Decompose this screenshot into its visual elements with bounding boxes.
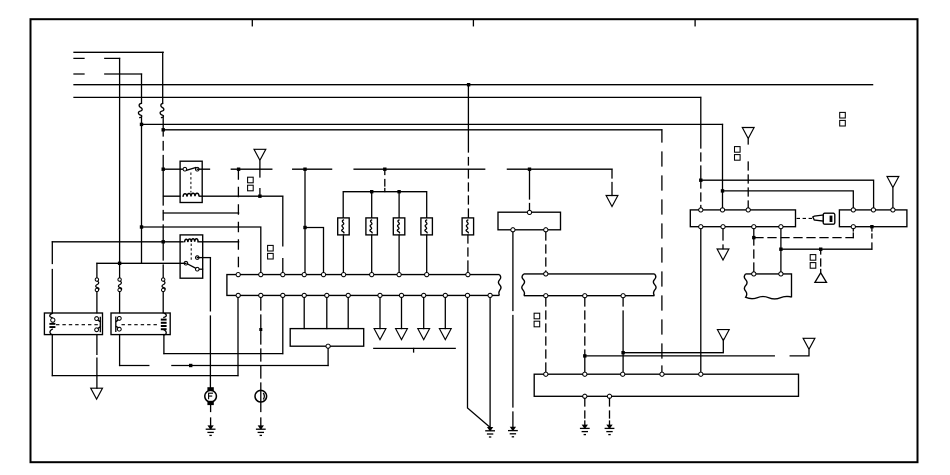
wire drop to fuse 2: [162, 52, 165, 103]
page triangle T7: [374, 329, 386, 340]
S1 coil core bars: [49, 323, 55, 325]
node coil bus junction: [162, 240, 165, 243]
CS1 top pin 4: [302, 273, 306, 277]
node x722.5 y190.9: [721, 189, 724, 192]
relay R2 contact upper right: [196, 256, 200, 260]
inline connector pair near x534: [534, 313, 540, 327]
wire x820.7 dashed down to option triangle: [820, 249, 822, 273]
wire below fuse 2: [162, 118, 164, 130]
option triangle up: [815, 273, 827, 283]
resistor R-E box: [462, 218, 474, 235]
CS2 bottom pin 3: [621, 294, 625, 298]
node y227 start: [140, 225, 143, 228]
solenoid box S2: [111, 313, 170, 335]
page triangle T9: [418, 329, 430, 340]
connector strip CS1: [227, 275, 500, 296]
wire GA1 pin1 long drop to strip CS3: [700, 229, 702, 374]
wire x305 drop to strip pin 4: [304, 169, 306, 272]
relay R2 switch arm: [188, 264, 196, 268]
junction box JB2 with torn edges: [744, 274, 791, 299]
wire S1 contact bottom toward ground: [96, 335, 98, 389]
motor F wire upper terminal: [207, 387, 213, 391]
relay R1 box: [180, 161, 202, 202]
CS1 top pin 10: [466, 273, 470, 277]
wire x163.2 breaker to solenoid box 2: [162, 292, 164, 313]
resistor R-C element: [397, 220, 399, 233]
node bus C start: [140, 123, 143, 126]
wire pin5 to junction box: [326, 298, 328, 329]
CB bottom pin 2: [544, 228, 548, 232]
wire resistor R-E to strip dashed: [467, 235, 469, 273]
breaker B2: [118, 278, 122, 292]
resistor R-D element: [425, 220, 427, 233]
chassis ground G5: [580, 425, 590, 435]
relay R1 switch arm: [187, 168, 196, 171]
wire y213 relay branch: [163, 212, 238, 214]
harness dashes to plug: [797, 217, 813, 219]
inline connector pair near x270: [268, 245, 274, 259]
fuse F2: [160, 103, 164, 117]
wire x119.6 breaker to solenoid box 2: [119, 292, 121, 313]
CS3 top pin 5: [699, 372, 703, 376]
inline connector pair x813: [810, 255, 816, 269]
wire x529.5 drop to control box: [529, 169, 531, 210]
GA1 bottom pin 2: [721, 225, 725, 229]
wire pin2 dashed down to motor C: [260, 298, 262, 391]
node y355.9: [583, 354, 586, 357]
wire pin6 to junction box: [347, 298, 349, 329]
wire ground run y375.6: [52, 375, 238, 377]
relay R1 coil: [183, 193, 199, 197]
GA1 bottom pin 3: [752, 225, 756, 229]
resistor bracket rail y191.7: [343, 192, 427, 218]
wire vertical x163.2 dashed below bus D to relay R1: [162, 130, 164, 169]
wire S1 coil bottom to ground run: [51, 335, 53, 376]
gauge box GA1: [690, 210, 795, 227]
wire pin8 to page triangle: [401, 298, 403, 329]
CS2 bottom pin 2: [583, 294, 587, 298]
wire bracket drop x399.1: [398, 192, 400, 218]
CS1 bottom pin 2: [259, 293, 263, 297]
wire pin12 down to ground: [489, 298, 491, 428]
wire x210.4 down to motor F: [209, 258, 211, 388]
JB2 top pin 2: [779, 272, 783, 276]
node on bus A: [467, 83, 470, 86]
wire GA1 pin4 down to JB2: [780, 229, 782, 272]
wire resistor bracket feed dashed: [384, 169, 386, 192]
relay R1 mechanical link dashed: [190, 173, 192, 193]
ground triangle below S1: [91, 388, 103, 399]
motor C inner wire: [260, 390, 262, 402]
CS1 bottom pin 4: [302, 293, 306, 297]
GA2 top pin 1: [851, 208, 855, 212]
breaker B3: [162, 278, 166, 292]
tick marker on top border 3: [694, 20, 696, 26]
page triangle above y352.7: [717, 330, 729, 341]
CS1 top pin 5: [321, 273, 325, 277]
wire resistor R-C to strip: [398, 235, 400, 273]
S2 contact bar: [116, 317, 118, 331]
CS2 bottom pin 1: [544, 294, 548, 298]
CS1 bottom pin 7: [378, 293, 382, 297]
wire bus B drop x700.8: [700, 97, 702, 180]
solenoid box S1: [44, 313, 102, 335]
node x119.6 junction on y263.3: [118, 262, 121, 265]
wire resistor R-B to strip: [371, 235, 373, 273]
wire y179.4 run: [701, 180, 874, 208]
wire x700.8 dashed to gauge box pin: [700, 180, 702, 208]
wire x282.8 drop to strip pin 3: [282, 196, 284, 272]
splice square on motor C wire: [259, 328, 262, 331]
wire y355.9 run to page triangle: [585, 350, 809, 356]
CS1 top pin 6: [342, 273, 346, 277]
shared underline below triangles: [374, 347, 455, 349]
GA1 top pin 1: [699, 208, 703, 212]
motor C hook: [263, 394, 266, 399]
inline connector pair near x250: [248, 177, 254, 191]
wire y352.7 branch to page triangle: [623, 339, 723, 352]
wire y169.2 dashed distribution bus: [197, 168, 612, 170]
GA2 bottom pin 2 node: [870, 225, 873, 228]
wire y365.5 dashed run: [120, 365, 329, 367]
plug connector head: [823, 213, 835, 224]
resistor R-A box: [338, 218, 350, 235]
chassis ground G6: [605, 425, 615, 435]
node y352.7: [621, 351, 624, 354]
node x700.8 y179.4: [699, 179, 702, 182]
relay R2 contact lower right: [196, 267, 200, 271]
wire x119.6 down to breaker: [119, 263, 121, 278]
control box CB: [498, 212, 561, 230]
CS1 bottom pin 5: [325, 293, 329, 297]
wire x96.9 breaker to solenoid box 1: [96, 292, 98, 313]
GA2 bottom pin 1: [851, 225, 855, 229]
CS1 top pin 2: [259, 273, 263, 277]
CS2 torn left edge: [522, 274, 525, 296]
wire x163.2 dashed down through junctions to breaker: [162, 196, 164, 278]
wire y241.8 coil feed left to solenoid box 1: [52, 241, 183, 243]
wire CS2 pin1 dashed down to strip CS3: [545, 298, 547, 374]
fuse F1: [138, 103, 142, 117]
S1 coil bump: [51, 318, 55, 322]
wire S2 contact bottom to y365.5: [119, 335, 121, 366]
wire GA1 pin3 dashed down to JB2: [753, 229, 755, 272]
chassis ground G4: [508, 427, 518, 437]
CS1 top pin 7: [370, 273, 374, 277]
resistor R-A element: [342, 220, 344, 233]
CS3 bottom pin 2: [607, 394, 611, 398]
wire JB pin down to y365.5: [327, 348, 329, 365]
bus C horizontal: [142, 123, 723, 125]
wire y241.8 right from relay R2 coil to strip drop: [198, 241, 239, 243]
wire GA1 pin2 to page triangle: [722, 229, 724, 249]
node x305 y227.5: [303, 226, 306, 229]
wire bus D long drop x662 dashed to strip CS3: [661, 130, 663, 374]
S2 coil core bars: [161, 319, 167, 321]
CS1 top pin 8: [397, 273, 401, 277]
S2 contact lower: [117, 327, 121, 331]
node bus D start: [162, 128, 165, 131]
CS3 bottom pin 1: [583, 394, 587, 398]
wire x871.9 dashed up to GA2 pin: [871, 229, 873, 249]
wire vertical x141.5 bus C to y227 and y263: [141, 124, 143, 263]
tail of triangle G2: [259, 160, 261, 196]
wire motor C to ground dashed: [260, 402, 262, 426]
CS1 top pin 9: [425, 273, 429, 277]
bus A horizontal: [74, 84, 873, 86]
CS1 bottom pin 9: [422, 293, 426, 297]
wire relay R1 switch feed: [163, 168, 185, 170]
JB2 top pin 1: [752, 272, 756, 276]
page triangle at x612: [606, 196, 618, 207]
wire y227.5 branch to pin 5: [305, 228, 324, 273]
wire CB pin2 dashed to strip CS2: [545, 232, 547, 272]
CS1 torn right edge: [498, 275, 501, 296]
junction box JB: [290, 329, 364, 347]
CS3 top pin 4: [660, 372, 664, 376]
breaker B1: [95, 278, 99, 292]
resistor R-D box: [421, 218, 433, 235]
page triangle below GA1 pin2: [717, 249, 729, 260]
page triangle G2 on y169.2: [254, 149, 266, 160]
splice node y365.5: [189, 364, 192, 367]
resistor R-B box: [366, 218, 378, 235]
wire triangle tail x748.2 dashed: [747, 139, 749, 208]
resistor R-C box: [393, 218, 405, 235]
wire y169.2 end drop to ground triangle dashed: [611, 169, 613, 195]
wire CB pin1 long drop to ground: [512, 232, 514, 427]
wire y227 from x141.5 to strip pin 2 drop: [142, 227, 261, 273]
wire pin4 to junction box: [303, 298, 305, 329]
wire bracket drop x371.7: [371, 192, 373, 218]
relay R2 coil: [185, 239, 199, 243]
wire S2 coil bottom to y353.6: [163, 335, 165, 354]
bus B horizontal: [74, 96, 701, 98]
wire x163.2 down to coil jog: [163, 169, 180, 196]
plug connector bar: [830, 216, 833, 222]
wire below fuse 1: [141, 118, 143, 125]
resistor R-B element: [370, 220, 372, 233]
wire y190.9 run: [723, 191, 854, 208]
wire CS2 pin3 down to strip CS3: [622, 298, 624, 374]
S1 contact lower: [95, 328, 99, 332]
wire relay R2 output to motor drop: [197, 257, 210, 259]
CS1 bottom pin 1: [236, 293, 240, 297]
CS3 top pin 1: [544, 372, 548, 376]
CB top pin: [527, 210, 531, 214]
chassis ground G3: [485, 427, 495, 437]
node y196.2 at x259.9: [258, 195, 261, 198]
CB bottom pin 1: [511, 228, 515, 232]
CS1 bottom pin 10: [443, 293, 447, 297]
wire bus C drop x722.5: [722, 124, 724, 190]
wire y196.2 from R1 coil to strip drop: [199, 195, 283, 197]
S1 contact upper: [95, 317, 99, 321]
wire x238.6 dashed drop to strip pin 1: [237, 169, 239, 272]
S2 coil winding: [164, 313, 166, 335]
wire feed 2 dashed stub: [74, 57, 120, 59]
inline connector pair x842.5: [840, 112, 846, 126]
node bracket x371.7: [370, 190, 373, 193]
underline center tick: [413, 348, 415, 352]
bus D horizontal: [163, 129, 662, 131]
CS1 bottom pin 8: [399, 293, 403, 297]
wire feed 1 (hot in): [74, 51, 163, 53]
node x753.8 y237.6: [752, 236, 755, 239]
wire triangle tail x892.9: [892, 188, 894, 208]
relay R2 box: [180, 235, 203, 278]
page triangle feed x892.9: [887, 177, 899, 188]
node y169.2 at x529.5: [528, 168, 531, 171]
connector strip CS2: [524, 274, 655, 296]
JB bottom pin: [326, 344, 330, 348]
GA2 top pin 2: [871, 208, 875, 212]
CS1 bottom pin 11: [465, 293, 469, 297]
relay R2 mechanical link dashed: [190, 244, 192, 262]
relay R2 contact left: [184, 261, 188, 265]
motor F lower terminal: [207, 401, 213, 405]
wire pin1 down to ground run: [237, 298, 239, 376]
inline connector pair x737.3: [735, 147, 741, 161]
CS3 top pin 2: [583, 372, 587, 376]
wire pin11 down and diagonal to ground: [468, 298, 490, 428]
tick marker on top border 1: [251, 20, 253, 26]
wire x722.5 to gauge box pin: [722, 191, 724, 208]
GA2 top pin 3: [891, 208, 895, 212]
page triangle T10: [439, 329, 451, 340]
wire CS3 pin2 dashed to ground: [609, 398, 611, 424]
page triangle T8: [396, 329, 408, 340]
S1 coil winding: [50, 313, 53, 334]
motor C body: [255, 390, 267, 402]
node y169.2 at x305: [303, 168, 306, 171]
plug connector neck: [813, 215, 823, 221]
node bracket x399.1: [397, 190, 400, 193]
wire y263.3 contact feed: [97, 262, 186, 264]
GA1 top pin 3: [746, 208, 750, 212]
wire pin9 to page triangle: [423, 298, 425, 329]
wire vertical x119.6 from stub to lower junction: [119, 58, 121, 263]
motor F letter: [209, 393, 213, 399]
wire bus A drop x468.4 to resistor R-E: [467, 85, 469, 218]
CS1 bottom pin 12: [488, 293, 492, 297]
CS3 top pin 3: [621, 372, 625, 376]
GA1 bottom pin 1: [699, 225, 703, 229]
GA1 bottom pin 4: [779, 225, 783, 229]
motor F body: [205, 390, 217, 402]
wire y353.6 run: [164, 353, 283, 355]
S1 contact bar: [98, 317, 100, 331]
S2 contact upper: [117, 317, 121, 321]
CS2 top pin: [544, 272, 548, 276]
wire resistor R-A to strip: [342, 235, 344, 273]
relay R1 switch contact left: [183, 167, 187, 171]
relay R1 switch contact right: [196, 167, 200, 171]
node y169.2 at x384.8: [383, 168, 386, 171]
GA1 top pin 2: [720, 208, 724, 212]
S2 link dashed: [122, 324, 158, 326]
wire y237.6 dashed run to GA2: [754, 237, 854, 239]
wire x853.3 dashed up to GA2 pin: [852, 229, 854, 238]
wire CS3 pin1 dashed to ground: [584, 398, 586, 424]
wire feed 3 dashed stub: [74, 73, 142, 75]
node x780.9 y249.2: [779, 248, 782, 251]
CS1 bottom pin 6: [346, 293, 350, 297]
node x820.7 y249.2: [819, 248, 822, 251]
wire pin7 to page triangle: [379, 298, 381, 329]
wire drop to fuse 1: [141, 74, 143, 103]
S1 link dashed: [56, 324, 99, 326]
chassis ground G1: [206, 426, 216, 436]
CS1 bottom pin 3: [281, 293, 285, 297]
node relay R1 input: [162, 168, 165, 171]
wire resistor R-D to strip: [426, 235, 428, 273]
wire x96.9 down to breaker: [96, 263, 98, 278]
tick marker on top border 2: [472, 20, 474, 26]
wire motor F to ground dashed: [210, 405, 212, 426]
connector strip CS3: [534, 374, 798, 396]
wire y249.2 run to GA2: [781, 248, 872, 250]
chassis ground G2: [256, 426, 266, 436]
CS2 torn right edge: [653, 274, 656, 296]
wire x52.3 down to solenoid box 1: [51, 242, 53, 313]
CS1 top pin 1: [236, 273, 240, 277]
CS1 top pin 3: [281, 273, 285, 277]
wire CS2 pin2 dashed down to strip CS3: [584, 298, 586, 374]
page triangle at end of y355.9: [803, 338, 815, 349]
gauge box GA2: [839, 210, 907, 227]
wire pin3 down to y353.6: [282, 298, 284, 354]
page triangle feed x748.2: [742, 128, 754, 139]
node y169.2 at x238.6: [237, 168, 240, 171]
wire pin10 to page triangle: [444, 298, 446, 329]
relay R2 lower contact stub: [199, 268, 203, 270]
resistor R-E element: [466, 220, 468, 233]
